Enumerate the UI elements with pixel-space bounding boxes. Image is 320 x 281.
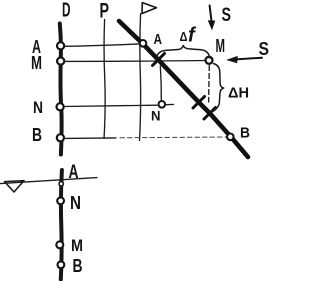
dashed vertical from M' down — [208, 66, 211, 103]
bench mark triangle (down-pointing) — [5, 181, 25, 192]
vertical from X1 down to N' — [160, 66, 161, 100]
dash of N line right of N' — [166, 103, 174, 105]
svg-text:B: B — [32, 125, 42, 145]
svg-text:M: M — [71, 236, 83, 255]
svg-text:f: f — [188, 25, 197, 47]
thin vertical line under P — [104, 20, 105, 139]
delta-H brace (vertical curly) — [211, 64, 224, 113]
point M on staff 1 — [57, 58, 64, 65]
svg-text:N: N — [151, 108, 161, 124]
svg-text:M: M — [216, 36, 226, 56]
horizontal sight line B (solid part) — [64, 137, 116, 140]
point A' on tilted staff — [140, 40, 147, 47]
vertical staff line 2 (bottom, thick) — [61, 170, 62, 280]
flag marker (right-pointing open triangle) — [142, 3, 157, 14]
cross mark X3 (diagonal x M' vertical) — [204, 108, 216, 120]
horizontal sight line B (dashed part to B') — [120, 136, 227, 139]
svg-text:M: M — [31, 53, 42, 73]
point N on staff 1 — [57, 103, 64, 110]
svg-text:B: B — [73, 256, 83, 276]
svg-text:ΔH: ΔH — [228, 86, 249, 102]
svg-text:B: B — [240, 125, 250, 142]
svg-text:S: S — [259, 39, 270, 59]
thin vertical line under flag — [140, 14, 141, 141]
svg-text:Δ: Δ — [180, 29, 188, 44]
svg-text:N: N — [70, 193, 81, 213]
horizontal sight line N — [64, 105, 157, 106]
point B2 — [58, 261, 65, 268]
horizontal sight line M — [64, 60, 206, 63]
arrow S (downward, top) — [210, 6, 212, 23]
point B on staff 1 — [57, 134, 64, 141]
tilted staff line (thick diagonal) — [119, 21, 248, 157]
arrow S (leftward, right side) — [236, 58, 262, 60]
point M' (projected M) — [206, 57, 213, 64]
svg-text:N: N — [33, 98, 43, 117]
small point A2 at datum — [59, 182, 63, 186]
svg-text:D: D — [62, 0, 71, 22]
cross mark X1 (diagonal x M line) — [153, 54, 165, 66]
point N2 — [57, 197, 64, 204]
point N' — [159, 101, 166, 108]
point A on staff 1 — [57, 42, 64, 49]
svg-text:A: A — [69, 162, 79, 183]
point M2 — [56, 241, 63, 248]
cross mark X2 (diagonal x N level) — [193, 97, 205, 109]
delta-f brace (horizontal curly) — [157, 46, 210, 59]
horizontal sight line A — [64, 44, 140, 46]
point B' on tilted staff — [227, 134, 234, 141]
svg-text:S: S — [222, 5, 232, 26]
vertical staff line 1 (left, thick) — [60, 24, 62, 155]
svg-text:A: A — [154, 31, 163, 48]
ground/datum line (bottom) — [0, 178, 97, 184]
